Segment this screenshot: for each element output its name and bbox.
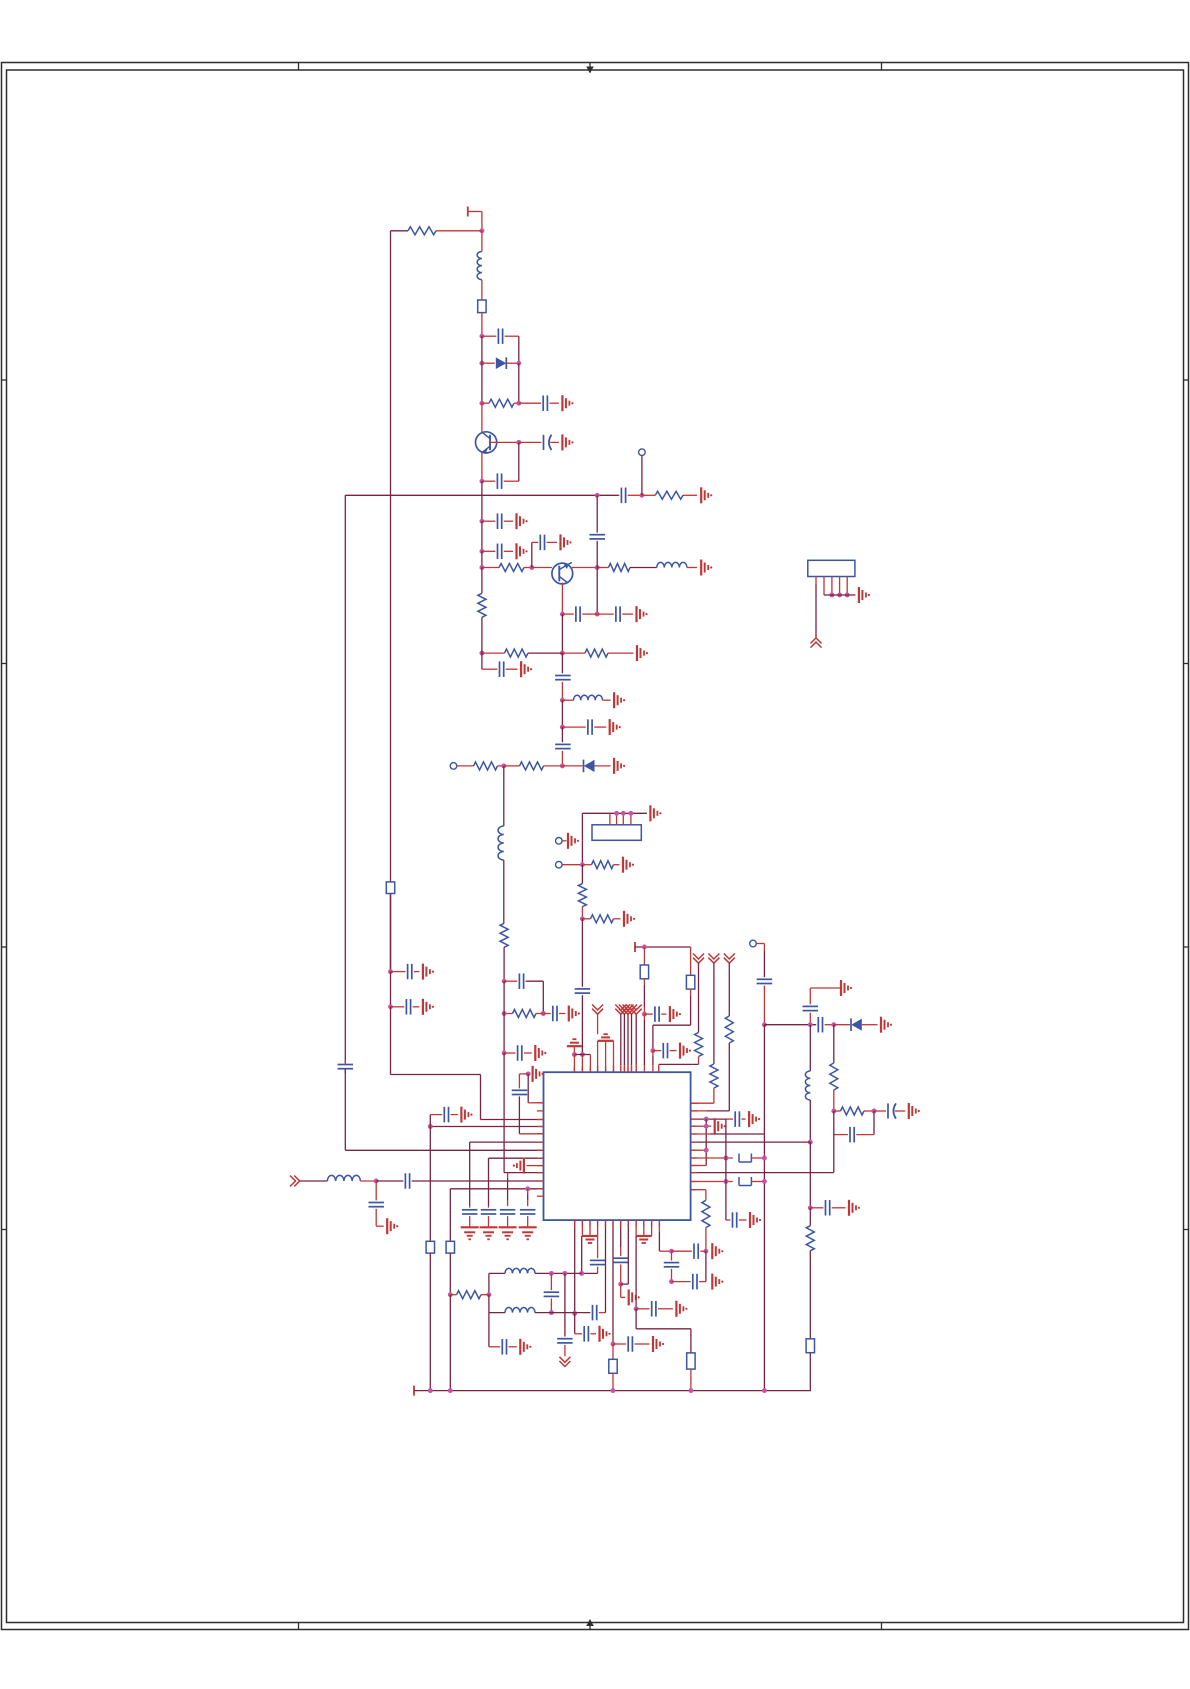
wire (x=725.9 drop) bbox=[725, 1119, 727, 1220]
wire bbox=[481, 551, 483, 567]
wire (pin 613 long) bbox=[612, 1220, 614, 1344]
wire (x=430 drop) bbox=[429, 1127, 431, 1242]
wire (pin row 1134) bbox=[691, 1133, 765, 1135]
power chevron V8 bbox=[708, 954, 719, 1065]
resistor R9 bbox=[474, 762, 504, 770]
wire bbox=[518, 336, 520, 363]
node AB (582.4,918.8) bbox=[580, 916, 585, 921]
pin bbox=[837, 577, 842, 598]
wire bbox=[659, 1220, 671, 1251]
node AM (833.8,1111) bbox=[831, 1109, 836, 1114]
pin bbox=[829, 577, 834, 598]
capacitor C39 bbox=[500, 1210, 515, 1228]
node AR (725.9,1158) bbox=[723, 1156, 728, 1161]
wire (rail y=813.3) bbox=[582, 812, 647, 814]
capacitor C21 bbox=[644, 1006, 666, 1022]
wire bbox=[809, 1025, 811, 1071]
node L (481.9,551.3) bbox=[479, 549, 484, 554]
diode D1 bbox=[482, 357, 519, 369]
wire bbox=[691, 1043, 730, 1111]
resistor R5 bbox=[597, 564, 657, 572]
ferrite bead FB11 bbox=[687, 1353, 695, 1369]
wire (pin row 1158) bbox=[691, 1157, 733, 1159]
node AN (874,1111) bbox=[872, 1109, 877, 1114]
resistor R18 (vertical) bbox=[725, 1016, 733, 1043]
pin bbox=[597, 1041, 599, 1072]
resistor R6 bbox=[482, 649, 563, 657]
node V (562.4,765.9) bbox=[560, 763, 565, 768]
resistor R2 bbox=[482, 399, 519, 407]
wire (jog up) bbox=[532, 542, 538, 567]
pin bbox=[609, 813, 611, 825]
node AE (644.4,947) bbox=[642, 945, 647, 950]
capacitor C9 bbox=[540, 535, 557, 551]
resistor R3 bbox=[642, 491, 697, 499]
ferrite bead FB9 bbox=[446, 1241, 454, 1253]
ground G25 bbox=[841, 980, 852, 996]
inductor L5 (vertical) bbox=[805, 1071, 810, 1100]
inductor L3 bbox=[562, 695, 610, 700]
wire bbox=[751, 1181, 764, 1183]
terminal J1 bbox=[639, 449, 646, 495]
resistor R23 bbox=[450, 1291, 489, 1299]
wire bbox=[612, 1344, 614, 1359]
wire (pin row 1150.2) bbox=[691, 1149, 707, 1151]
wire bbox=[561, 583, 563, 615]
wire bbox=[621, 1220, 629, 1284]
node J (597.2,495.3) bbox=[595, 493, 600, 498]
node BD (574.7,1313.4) bbox=[572, 1311, 577, 1316]
resistor R19 (vertical) bbox=[806, 1226, 814, 1251]
wire bbox=[561, 727, 563, 742]
ground G4 bbox=[517, 513, 528, 529]
wire bbox=[550, 1273, 552, 1290]
resistor R8 (vertical) bbox=[478, 593, 486, 617]
node AD (574.4,1054.5) bbox=[572, 1052, 577, 1057]
pin bbox=[628, 811, 633, 825]
node BI (488.9,1294.7) bbox=[486, 1292, 491, 1297]
wire bbox=[636, 1309, 691, 1353]
resistor R1 bbox=[408, 227, 436, 235]
ground G27 bbox=[909, 1103, 920, 1119]
ground G30 bbox=[750, 1212, 761, 1228]
wire bbox=[507, 1173, 509, 1207]
ferrite bead FB3 bbox=[686, 975, 694, 989]
ferrite bead FB7 bbox=[386, 882, 394, 894]
pin bbox=[635, 1220, 637, 1236]
capacitor C41 bbox=[368, 1203, 384, 1207]
ground G16 bbox=[650, 805, 661, 821]
wire bbox=[518, 442, 520, 481]
wire bbox=[300, 1180, 328, 1182]
ground G41 bbox=[387, 1218, 398, 1234]
capacitor C5 bbox=[619, 488, 642, 504]
wire bbox=[503, 947, 505, 981]
inductor L6 bbox=[327, 1175, 376, 1181]
wire bbox=[527, 1189, 529, 1206]
capacitor C29 bbox=[726, 1111, 746, 1127]
ground G19 bbox=[624, 911, 635, 927]
wire (pin row 1119.1) bbox=[691, 1118, 726, 1120]
node BG (564.9,1273.4) bbox=[562, 1271, 567, 1276]
node AU (764.4,1181.5) bbox=[762, 1179, 767, 1184]
wire bbox=[809, 1142, 811, 1208]
wire (row 1188.8) bbox=[450, 1188, 543, 1190]
node AW (390.5,971.6) bbox=[388, 969, 393, 974]
capacitor C50 bbox=[613, 1258, 629, 1262]
ground G3 bbox=[701, 487, 712, 503]
wire (pin row 1181.5) bbox=[691, 1181, 733, 1183]
node E (481.9,403.2) bbox=[479, 401, 484, 406]
wire bbox=[391, 1007, 544, 1120]
ferrite bead FB1 bbox=[478, 300, 486, 313]
capacitor C19 bbox=[504, 1045, 532, 1061]
ground G40 bbox=[499, 1227, 517, 1239]
wire bbox=[449, 1253, 451, 1295]
pin bbox=[613, 1041, 615, 1072]
wire bbox=[582, 1267, 598, 1274]
resistor R21 bbox=[834, 1107, 874, 1115]
capacitor C47 bbox=[502, 1339, 517, 1355]
node N (531.8,567.5) bbox=[529, 565, 534, 570]
wire bbox=[873, 1111, 875, 1135]
capacitor C49 bbox=[613, 1336, 650, 1352]
capacitor C14 bbox=[555, 676, 571, 680]
ground G35 bbox=[461, 1107, 472, 1123]
ground G15 bbox=[535, 1045, 546, 1061]
pin bbox=[597, 1220, 599, 1236]
wire bbox=[621, 1284, 626, 1297]
capacitor C11 bbox=[562, 606, 597, 622]
node AT (725.9,1181.5) bbox=[723, 1179, 728, 1184]
capacitor C23 bbox=[757, 979, 773, 983]
wire bbox=[691, 1088, 714, 1103]
ground G7 bbox=[701, 560, 712, 576]
wire (bus x=706.2) bbox=[705, 1119, 707, 1165]
ground G24 bbox=[881, 1017, 892, 1033]
power chevron V2 bbox=[615, 1005, 626, 1073]
capacitor C25 bbox=[803, 1006, 819, 1010]
wire (row 1165.6) bbox=[527, 1165, 544, 1167]
node AZ (528.2,1073.9) bbox=[526, 1071, 531, 1076]
wire bbox=[481, 212, 483, 231]
node AI (833.8,1024.7) bbox=[831, 1022, 836, 1027]
wire (pin stub) bbox=[573, 1055, 575, 1073]
node BK (620.7,1284.1) bbox=[618, 1282, 623, 1287]
wire bbox=[597, 1236, 599, 1258]
wire bbox=[574, 1055, 590, 1073]
inductor L2 bbox=[657, 562, 697, 567]
resistor R14 (vertical) bbox=[578, 884, 586, 907]
ground G13 bbox=[614, 758, 625, 774]
wire (pin) bbox=[652, 1051, 654, 1066]
wire (rail y=1273.4) bbox=[489, 1272, 505, 1274]
wire bbox=[481, 453, 483, 482]
ground G32 bbox=[712, 1274, 723, 1290]
wire bbox=[581, 1055, 583, 1073]
wire bbox=[345, 1069, 543, 1151]
capacitor C8 bbox=[482, 544, 513, 560]
power chevron V9 bbox=[724, 954, 735, 1017]
node BH (551.4,1312.6) bbox=[549, 1310, 554, 1315]
capacitor C36 bbox=[512, 1090, 528, 1094]
wire bbox=[809, 1013, 811, 1025]
wire (long rail y=495.3) bbox=[345, 494, 618, 496]
wire bbox=[605, 1220, 607, 1313]
node BC (450.3,1294.7) bbox=[448, 1292, 453, 1297]
capacitor C43 bbox=[584, 1326, 596, 1342]
ground G11 bbox=[614, 692, 625, 708]
wire bbox=[751, 1157, 764, 1159]
ground G46 bbox=[520, 1339, 531, 1355]
resistor R12 bbox=[504, 1010, 543, 1018]
wire bbox=[535, 1272, 582, 1274]
node U (562.4,727.1) bbox=[560, 725, 565, 730]
capacitor C46 bbox=[557, 1339, 573, 1343]
node AF (644.4,1014.1) bbox=[642, 1012, 647, 1017]
node AY (430.3,1126.5) bbox=[428, 1124, 433, 1129]
ferrite bead FB2 bbox=[640, 965, 648, 979]
wire (pin row 1126.2) bbox=[691, 1125, 712, 1127]
wire bbox=[643, 979, 645, 1014]
wire (pin) bbox=[643, 1014, 645, 1066]
capacitor C17 bbox=[504, 973, 543, 989]
terminal T2 bbox=[635, 942, 691, 952]
pin bbox=[621, 811, 626, 825]
ground G12 bbox=[610, 719, 621, 735]
wire bbox=[581, 907, 583, 919]
ground G18 bbox=[623, 857, 634, 873]
node W (503.8,765.9) bbox=[501, 763, 506, 768]
wire bbox=[528, 1074, 543, 1103]
transistor Q2 bbox=[552, 563, 573, 584]
wire (row 1158.2) bbox=[489, 1158, 544, 1206]
resistor R11 (vertical) bbox=[500, 923, 508, 947]
capacitor C54 bbox=[672, 1274, 706, 1290]
ferrite bead FB6 bbox=[739, 1177, 751, 1186]
wire bbox=[481, 617, 483, 653]
ground G33 bbox=[423, 964, 434, 980]
pin bbox=[651, 1220, 653, 1236]
ground G43 (triple pin gnd) bbox=[582, 1236, 597, 1243]
ground G45 bbox=[600, 1326, 611, 1342]
capacitor C53 bbox=[664, 1263, 680, 1267]
ground G44 (triple pin gnd) bbox=[636, 1236, 652, 1243]
ground G2 bbox=[562, 434, 573, 450]
node AJ (810.3,1024.7) bbox=[808, 1022, 813, 1027]
node AG (652.9,1050.6) bbox=[650, 1048, 655, 1053]
power chevron V3 bbox=[619, 1005, 630, 1073]
resistor R10 bbox=[504, 762, 563, 770]
wire bbox=[519, 1074, 528, 1089]
wire bbox=[809, 1100, 811, 1142]
wire (row 1126.5) bbox=[430, 1126, 543, 1128]
node BJ (613,1344) bbox=[611, 1342, 616, 1347]
node BE (581.7,1273.4) bbox=[579, 1271, 584, 1276]
wire bbox=[620, 1220, 622, 1256]
inductor L7 bbox=[505, 1268, 535, 1273]
wire bbox=[575, 1313, 582, 1333]
diode D2 bbox=[562, 760, 610, 773]
terminal J5 bbox=[750, 940, 765, 947]
node BP (450.3,1390.6) bbox=[448, 1388, 453, 1393]
node BM (671.5,1251.2) bbox=[669, 1249, 674, 1254]
IC pin stubs bbox=[537, 1066, 697, 1227]
capacitor C7 bbox=[482, 513, 513, 529]
wire (bottom rail) bbox=[414, 1390, 811, 1392]
capacitor C12 bbox=[597, 606, 633, 622]
capacitor C33 bbox=[391, 964, 420, 980]
node AX (390.5,1006.8) bbox=[388, 1004, 393, 1009]
wire bbox=[635, 1236, 637, 1309]
pin bbox=[589, 1220, 591, 1236]
connector CN1 bbox=[808, 560, 855, 576]
wire bbox=[550, 1299, 552, 1313]
wire bbox=[429, 1253, 431, 1391]
node Q (562.4,614.1) bbox=[560, 612, 565, 617]
wire bbox=[763, 986, 765, 1025]
ground G36 bbox=[533, 1066, 544, 1082]
wire bbox=[612, 1373, 614, 1390]
ground G38 bbox=[480, 1227, 498, 1239]
wire bbox=[561, 682, 563, 700]
wire bbox=[489, 1313, 500, 1347]
node R (562.4,653.1) bbox=[560, 651, 565, 656]
IC U1 bbox=[544, 1072, 691, 1220]
ground G52 bbox=[859, 587, 870, 603]
capacitor C18 bbox=[543, 1006, 565, 1022]
wire bbox=[503, 766, 505, 826]
diode D3 bbox=[834, 1018, 878, 1031]
wire bbox=[488, 1273, 490, 1294]
wire bbox=[763, 944, 765, 978]
terminal T3 bbox=[413, 1386, 415, 1396]
node BF (551.4,1273.4) bbox=[549, 1271, 554, 1276]
node AC (582.4,1054.5) bbox=[580, 1052, 585, 1057]
node G (518.8,442.4) bbox=[516, 440, 521, 445]
node AP (706.2,1126.2) bbox=[704, 1124, 709, 1129]
wire bbox=[564, 1273, 566, 1336]
power chevron V5 bbox=[626, 1005, 637, 1073]
offpage chevron OUT2 bbox=[811, 638, 822, 648]
power chevron V1 bbox=[592, 1005, 603, 1035]
inductor L4 (vertical) bbox=[498, 826, 504, 860]
wire (pin row 1142.1) bbox=[691, 1141, 811, 1143]
capacitor C24 bbox=[764, 1017, 833, 1032]
ground G42 bbox=[519, 1227, 537, 1239]
node BL (636.1,1308.8) bbox=[634, 1306, 639, 1311]
wire bbox=[430, 1115, 442, 1127]
node X2 (504.1,1013.5) bbox=[502, 1011, 507, 1016]
wire bbox=[569, 562, 597, 567]
node AK (810.3,1142.1) bbox=[808, 1140, 813, 1145]
capacitor C6 bbox=[338, 1060, 354, 1073]
wire bbox=[488, 1295, 490, 1313]
wire bbox=[376, 1209, 384, 1226]
pin bbox=[605, 1041, 607, 1072]
capacitor C52 bbox=[672, 1243, 706, 1259]
node AH (764.4,1024.7) bbox=[762, 1022, 767, 1027]
node BB (527.7,1188.8) bbox=[525, 1186, 530, 1191]
pin bbox=[581, 1220, 583, 1236]
node AA (582.4,864.7) bbox=[580, 862, 585, 867]
wire bbox=[653, 989, 691, 1051]
wire bbox=[503, 860, 505, 923]
capacitor C10 bbox=[589, 535, 605, 539]
resistor R22 (vertical) bbox=[702, 1200, 710, 1227]
wire bbox=[391, 230, 482, 232]
resistor R17 (vertical) bbox=[710, 1064, 718, 1088]
wire bbox=[620, 1265, 622, 1285]
node C (481.9,363.2) bbox=[479, 336, 484, 365]
wire bbox=[561, 653, 563, 673]
ground G28 bbox=[749, 1111, 760, 1127]
inductor L8 bbox=[505, 1308, 535, 1313]
wire (pin 574.7 long) bbox=[574, 1220, 576, 1313]
node AO (706.2,1119.1) bbox=[704, 1117, 709, 1122]
wire bbox=[519, 1096, 543, 1133]
ground G20 (signal gnd above pin) bbox=[567, 1039, 582, 1054]
wire bbox=[532, 567, 552, 569]
wire bbox=[481, 568, 483, 594]
node AS (764.4,1158) bbox=[762, 1156, 767, 1161]
wire (long drop x=345.3) bbox=[344, 495, 346, 1063]
capacitor C1 bbox=[482, 328, 519, 344]
resistor R7 bbox=[562, 649, 633, 657]
wire bbox=[542, 981, 544, 1013]
power chevron V4 bbox=[623, 1005, 634, 1073]
terminal T1 (supply stub top) bbox=[468, 207, 482, 217]
node AL (810.3,1207.8) bbox=[808, 1205, 813, 1210]
wire bbox=[561, 700, 563, 727]
capacitor C15 bbox=[562, 719, 606, 735]
node BR (690.9,1390.6) bbox=[688, 1388, 693, 1393]
capacitor C22 bbox=[653, 1043, 677, 1059]
node D (518.8,363.2) bbox=[516, 361, 521, 366]
node BA (376.2,1181) bbox=[374, 1179, 379, 1184]
wire bbox=[581, 995, 583, 1054]
wire (pin row 1165.5) bbox=[691, 1165, 707, 1167]
ground G39 bbox=[513, 1158, 524, 1174]
ground G26 bbox=[849, 1200, 860, 1216]
wire bbox=[581, 919, 583, 987]
capacitor C42 bbox=[520, 1210, 536, 1228]
capacitor C37 bbox=[462, 1206, 478, 1227]
node M (481.9,567.5) bbox=[479, 565, 484, 570]
wire bbox=[561, 614, 563, 653]
capacitor C3 (polarized) bbox=[519, 435, 559, 450]
ground G23 bbox=[680, 1043, 691, 1059]
terminal J4 bbox=[556, 861, 583, 868]
wire bbox=[833, 1111, 835, 1173]
wire bbox=[671, 1269, 673, 1282]
wire (row 1142.1) bbox=[470, 1142, 544, 1206]
wire bbox=[809, 1251, 811, 1339]
terminal J3 bbox=[556, 838, 567, 845]
terminal J2 bbox=[450, 763, 473, 770]
ground G22 bbox=[670, 1006, 681, 1022]
node S (481.9,653.1) bbox=[479, 651, 484, 656]
transistor Q1 bbox=[476, 432, 519, 454]
ground G49 bbox=[676, 1301, 687, 1317]
ground G31 bbox=[712, 1243, 723, 1259]
wire bbox=[564, 1345, 566, 1356]
node F (518.8,403.2) bbox=[516, 401, 521, 406]
node AV (705.9,1251.2) bbox=[703, 1249, 708, 1254]
capacitor C35 bbox=[444, 1107, 458, 1123]
wire bbox=[481, 521, 483, 551]
ground G6 bbox=[561, 534, 572, 550]
